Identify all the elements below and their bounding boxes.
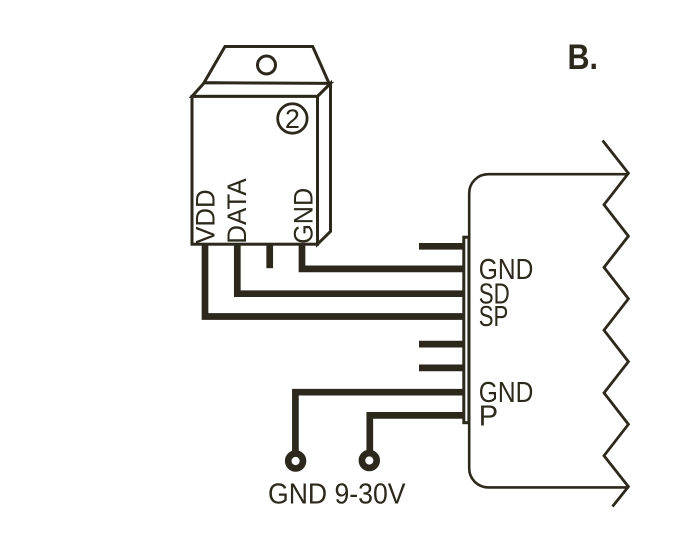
svg-text:SP: SP (479, 301, 509, 333)
wire: 9-30V terminal to header pin P (370, 415, 466, 450)
wire: header stub pin 1 (419, 243, 466, 250)
torn edge zigzag (603, 141, 629, 507)
terminal 9-30V (ring) (362, 453, 377, 468)
sensor tab hole (258, 56, 276, 74)
wire: sensor VDD pin to header pin SP (205, 242, 466, 317)
header bar (464, 237, 469, 423)
svg-text:VDD: VDD (190, 189, 220, 244)
sensor top face (192, 83, 331, 97)
sensor tab (204, 47, 329, 84)
terminal GND (ring) (288, 454, 303, 469)
svg-text:2: 2 (285, 104, 300, 134)
wire: sensor GND pin to header pin GND (302, 242, 466, 269)
sensor right side face (318, 83, 331, 244)
wire: GND terminal to header pin GND (295, 392, 466, 451)
wire: header stub pin 5 (419, 341, 466, 348)
svg-text:B.: B. (568, 38, 599, 77)
sensor front face (192, 96, 318, 244)
svg-text:DATA: DATA (222, 178, 252, 244)
marking: circled 2 (278, 104, 307, 133)
svg-text:P: P (479, 400, 498, 432)
wire: header stub pin 6 (419, 365, 466, 372)
svg-text:GND: GND (288, 188, 318, 244)
svg-text:GND 9-30V: GND 9-30V (268, 479, 406, 511)
connector block body (rounded, torn right edge) (469, 174, 628, 487)
wire: sensor NC pin stub (266, 242, 273, 268)
wire: sensor DATA pin to header pin SD (237, 242, 466, 294)
